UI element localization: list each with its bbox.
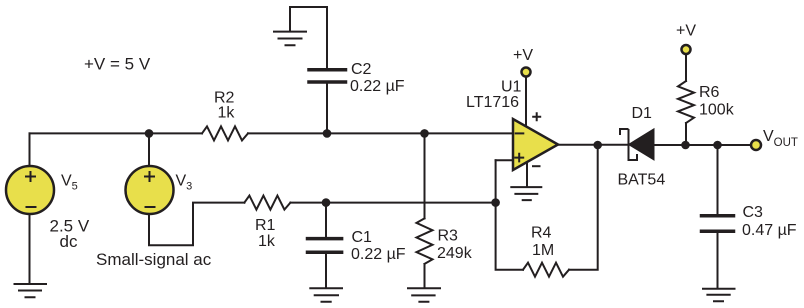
svg-text:100k: 100k: [699, 102, 735, 119]
resistor R6: [678, 81, 694, 123]
node: R3 junction: [420, 129, 429, 138]
ground at top (C2): [274, 32, 306, 46]
U1 negative supply mark: [532, 165, 541, 167]
svg-text:+V = 5 V: +V = 5 V: [84, 54, 151, 73]
wire: V5 bottom stem: [29, 215, 31, 284]
svg-text:Small-signal ac: Small-signal ac: [96, 250, 212, 269]
node: R6 junction: [681, 141, 690, 150]
wire: U1 ground stem: [526, 162, 528, 186]
node: C2 junction: [323, 129, 332, 138]
wire: C1 stem: [325, 203, 327, 237]
wire: U1 output to diode: [558, 144, 628, 146]
U1 inverting input mark: [515, 132, 525, 134]
svg-text:U1: U1: [501, 79, 522, 96]
node: non-inverting input junction: [491, 198, 500, 207]
svg-text:1k: 1k: [218, 105, 236, 122]
wire: main top bus from V5 to U1 inverting input: [30, 132, 203, 134]
wire: C1 to ground: [325, 254, 327, 287]
wire: R6 top stem: [685, 55, 687, 81]
diode D1 (Schottky BAT54): [620, 129, 654, 160]
ground under C1: [310, 288, 342, 302]
svg-text:R6: R6: [699, 84, 720, 101]
svg-text:C1: C1: [352, 229, 373, 246]
resistor R2: [202, 126, 248, 140]
wire: R6 to output wire: [685, 123, 687, 145]
svg-text:R4: R4: [531, 225, 552, 242]
ground under C3: [703, 289, 735, 302]
svg-text:C3: C3: [743, 204, 764, 221]
resistor R4: [523, 263, 569, 277]
wire: diode to Vout terminal: [655, 144, 750, 146]
resistor R3: [417, 218, 433, 264]
svg-text:0.47 µF: 0.47 µF: [742, 222, 797, 239]
wire: top ground run to C2: [290, 7, 327, 68]
wire: R3 to ground: [424, 264, 426, 287]
terminal: U1 +V supply: [522, 68, 531, 77]
svg-text:dc: dc: [60, 232, 78, 251]
svg-text:LT1716: LT1716: [466, 94, 519, 111]
svg-text:R3: R3: [438, 228, 459, 245]
node: V3 tap on top bus: [145, 129, 154, 138]
terminal: R6 +V supply: [682, 45, 691, 54]
node: C3 junction: [713, 141, 722, 150]
wire: U1 supply stem: [525, 78, 527, 127]
wire: V5 top stem: [29, 133, 31, 166]
wire: C3 to ground: [717, 232, 719, 287]
svg-text:D1: D1: [632, 105, 653, 122]
resistor R1: [244, 196, 290, 210]
U1 non-inverting input mark: [514, 153, 524, 163]
svg-text:249k: 249k: [437, 245, 473, 262]
svg-text:1M: 1M: [532, 242, 554, 259]
wire: C3 stem: [717, 145, 719, 214]
op-amp U1: [513, 112, 558, 170]
terminal: Vout: [751, 140, 761, 150]
svg-text:R1: R1: [255, 217, 276, 234]
voltage source V5: [6, 166, 54, 214]
svg-text:0.22 µF: 0.22 µF: [350, 78, 405, 95]
wire: R4 to output node: [569, 145, 598, 270]
svg-text:+V: +V: [513, 47, 533, 64]
wire: R1 output to non-inverting node: [290, 202, 495, 204]
ground under R3: [408, 288, 440, 302]
capacitor C3: [702, 216, 734, 232]
wire: non-inverting input vertical and feedback leg: [496, 160, 523, 269]
wire: + input to op-amp: [496, 159, 513, 161]
voltage source V3: [126, 166, 174, 214]
capacitor C1: [308, 239, 342, 253]
svg-text:0.22 µF: 0.22 µF: [351, 246, 406, 263]
U1 positive supply mark: [532, 112, 541, 121]
ground under U1: [511, 187, 541, 200]
node: C1 junction: [322, 198, 331, 207]
svg-text:BAT54: BAT54: [618, 172, 666, 189]
wire: C2 to top bus: [326, 84, 328, 134]
svg-text:C2: C2: [351, 61, 372, 78]
wire: V3 bottom loop to R1: [149, 203, 244, 246]
ground under V5: [15, 284, 47, 297]
node: feedback tap on output: [593, 141, 602, 150]
wire: V3 top stem: [148, 133, 150, 166]
svg-text:+V: +V: [676, 23, 696, 40]
capacitor C2: [309, 70, 346, 82]
svg-text:1k: 1k: [258, 233, 276, 250]
wire: R3 drop from top bus: [424, 133, 426, 218]
